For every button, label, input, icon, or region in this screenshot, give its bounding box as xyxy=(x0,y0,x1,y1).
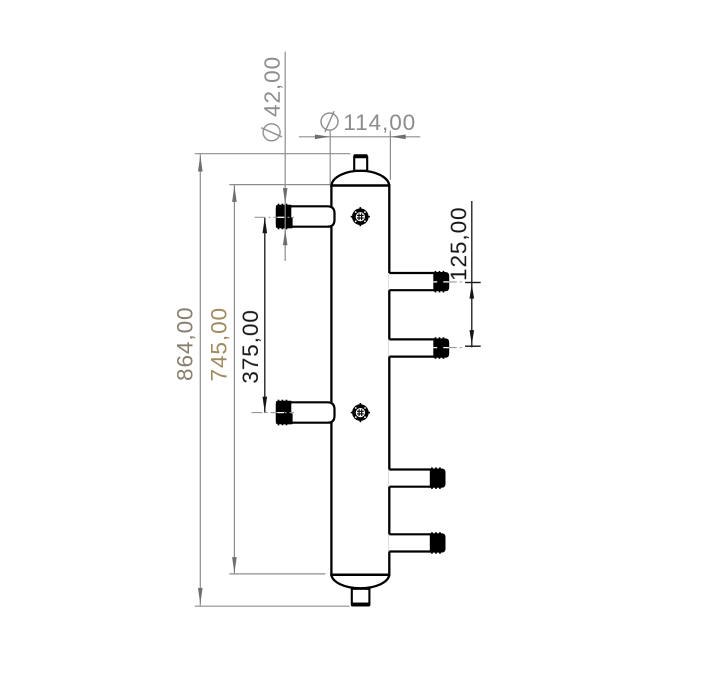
centreline right port 1 xyxy=(449,281,465,283)
right port R1 threaded end xyxy=(433,272,449,291)
dimension 864,00 line xyxy=(199,154,201,606)
864 top arrow xyxy=(198,155,203,171)
svg-text:42,00: 42,00 xyxy=(260,56,285,117)
centreline left port 2 xyxy=(252,412,295,414)
125 lower arrow xyxy=(470,330,475,345)
125 upper tick xyxy=(465,282,481,284)
right port R4 threaded end xyxy=(430,533,446,552)
dimension 42 leader line upper segment xyxy=(284,52,286,261)
right port R1 pipe xyxy=(388,273,434,290)
114 left extension line xyxy=(329,131,331,184)
dimension text 42,00 with diameter symbol xyxy=(260,56,285,141)
centreline knockout over left port P1 block xyxy=(278,216,284,218)
right port R4 pipe xyxy=(388,534,431,551)
vessel right side wall xyxy=(388,186,390,575)
front weld boss circle 1 xyxy=(351,207,370,226)
114 right arrow xyxy=(390,135,405,140)
left port P1 threaded end xyxy=(276,205,292,228)
dimension text 864,00 xyxy=(173,306,198,381)
centreline left port 1 xyxy=(255,216,295,218)
dimension text 375,00 xyxy=(238,309,263,384)
vessel bottom dome xyxy=(331,575,389,588)
vessel bottom weld seam xyxy=(330,574,390,577)
svg-text:125,00: 125,00 xyxy=(446,206,471,281)
right port R2 threaded end xyxy=(433,338,449,357)
top nipple cap xyxy=(353,154,367,157)
vessel top dome xyxy=(331,171,389,186)
864 bottom extension line xyxy=(195,605,350,607)
dimension text 745,00 xyxy=(207,307,232,382)
bottom nipple cap xyxy=(351,603,370,606)
dimension 745,00 line xyxy=(233,185,235,574)
left port P1 pipe xyxy=(277,206,335,226)
front weld boss circle 2 xyxy=(351,403,370,422)
114 right extension line xyxy=(389,131,391,180)
bottom nipple xyxy=(352,589,370,604)
left port P2 threaded end xyxy=(276,401,292,424)
745 top extension line xyxy=(229,184,330,186)
svg-text:745,00: 745,00 xyxy=(207,307,232,382)
745 bottom extension line xyxy=(229,573,325,575)
864 top extension line xyxy=(195,153,351,155)
42 upper arrow (points down to port top) xyxy=(283,188,288,204)
svg-text:375,00: 375,00 xyxy=(238,309,263,384)
dimension text 125,00 xyxy=(446,206,471,281)
right port R2 pipe xyxy=(388,339,434,356)
dimension 114,00 line xyxy=(299,136,420,138)
centreline knockout over left port P2 block xyxy=(278,412,284,414)
centreline right port 2 xyxy=(449,347,465,349)
42 lower arrow (points up to port bottom) xyxy=(283,229,288,245)
svg-text:864,00: 864,00 xyxy=(173,306,198,381)
vessel top weld seam xyxy=(330,184,390,187)
dimension text 114,00 with diameter symbol xyxy=(321,110,416,135)
375 top arrow xyxy=(263,217,268,233)
864 bottom arrow xyxy=(198,588,203,604)
vessel left side wall xyxy=(330,186,332,575)
dimension 375,00 line xyxy=(264,217,266,412)
745 top arrow xyxy=(232,186,237,202)
top nipple xyxy=(354,157,367,171)
745 bottom arrow xyxy=(232,557,237,573)
114 left arrow xyxy=(315,135,330,140)
right port R3 pipe xyxy=(388,470,431,487)
125 lower tick xyxy=(465,345,481,347)
375 bottom arrow xyxy=(263,397,268,413)
dimension 125,00 line xyxy=(471,201,473,347)
svg-text:114,00: 114,00 xyxy=(343,110,416,135)
left port P2 pipe xyxy=(277,402,335,422)
125 upper arrow xyxy=(470,284,475,299)
right port R3 threaded end xyxy=(430,469,446,488)
